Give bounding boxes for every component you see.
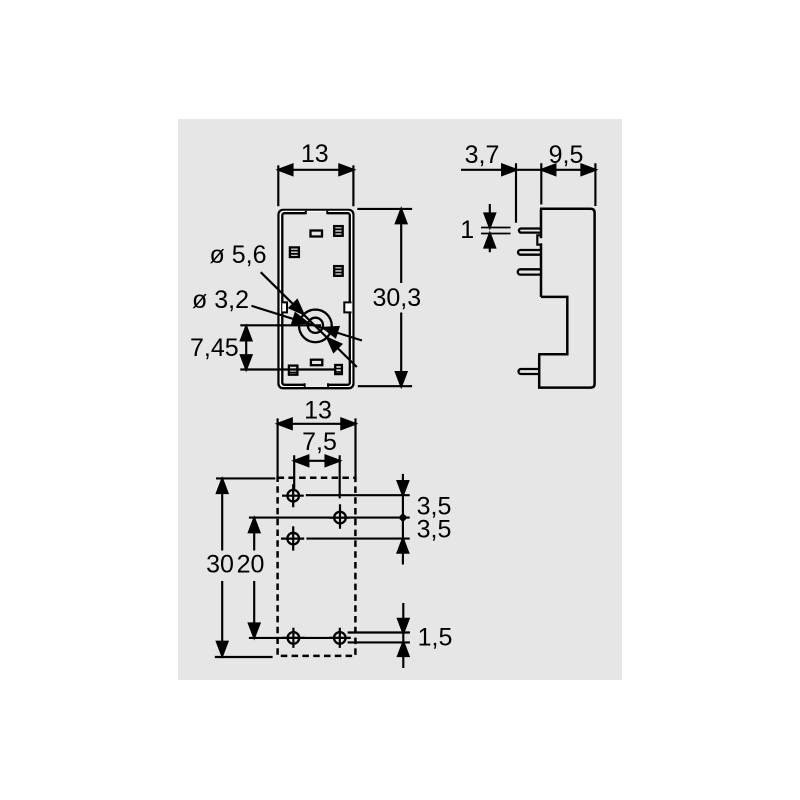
line hole B row	[249, 517, 410, 519]
dimension 30,3: arrows	[396, 209, 406, 223]
dimension 7,5: extension lines	[294, 455, 340, 498]
dimension 30,3: dimension line segments	[400, 209, 402, 386]
side view clip notch	[537, 235, 542, 244]
dimension 13 top: extension lines	[278, 165, 353, 206]
side view pin 2	[518, 250, 541, 255]
dimension 7,45: arrows	[241, 327, 251, 341]
pin slot hatched bottom-left	[289, 366, 298, 375]
line 1,5 upper	[348, 631, 410, 633]
side view body outline	[538, 209, 594, 388]
hole B	[329, 504, 350, 529]
inner line gap top	[306, 212, 328, 215]
dimension 1,5: vertical line	[402, 603, 404, 668]
hole C	[281, 526, 304, 550]
right wall notch	[344, 302, 351, 312]
dimension 1: arrow lines	[489, 204, 491, 252]
side view wall gap at clip	[539, 238, 543, 243]
pin slot hatched top-right	[334, 226, 343, 236]
svg-text:1: 1	[460, 216, 474, 244]
line hole C row	[306, 538, 409, 540]
svg-text:3,5: 3,5	[417, 516, 452, 544]
line 1,5 lower	[348, 641, 410, 643]
center hole outer circle	[299, 310, 332, 343]
svg-text:ø 5,6: ø 5,6	[210, 241, 267, 269]
svg-text:ø 3,2: ø 3,2	[192, 286, 249, 314]
left wall notch	[282, 302, 287, 312]
dimension 7,5: dimension line	[294, 460, 339, 462]
svg-text:7,45: 7,45	[190, 334, 239, 362]
hole E	[329, 628, 351, 648]
hole A	[282, 484, 304, 507]
dimension 30,3: extension lines	[357, 209, 412, 386]
dimension 3,5 shared diamond	[398, 513, 407, 522]
svg-text:20: 20	[237, 550, 265, 578]
dimension 7,45: dimension line	[245, 326, 247, 370]
pin slot open top	[311, 231, 323, 237]
dimension 7,45: extension lines	[240, 325, 334, 369]
side view pin 1	[519, 229, 541, 233]
dimension 3,7 / 9,5: dimension line	[461, 169, 595, 171]
svg-text:3,7: 3,7	[465, 141, 500, 169]
top view inner outline	[282, 213, 350, 385]
dimension 20: dimension line segments	[253, 518, 255, 637]
inner line gap bottom	[304, 383, 328, 386]
svg-text:30: 30	[206, 550, 234, 578]
dimension 30: dimension line segments	[221, 479, 223, 655]
dimension 13 top: dimension line	[278, 169, 353, 171]
bottom recess step ticks	[305, 383, 328, 387]
dimension 13 bottom: dimension line	[278, 423, 356, 425]
side view pin 4	[519, 369, 540, 374]
line holes D/E row	[249, 637, 351, 639]
dimension 30: extension lines	[215, 478, 275, 657]
side view left wall	[540, 209, 543, 297]
svg-text:7,5: 7,5	[302, 428, 337, 456]
leader line dia 3,2 (shallow)	[252, 306, 363, 341]
center hole inner circle	[308, 318, 323, 333]
pin slot hatched bottom-right	[335, 365, 342, 374]
hole D	[282, 628, 305, 648]
dimension 13 top: arrows	[279, 165, 293, 175]
dimension 13 bottom: extension lines	[278, 418, 356, 477]
pin slot open bottom	[311, 360, 322, 366]
leader line dia 5,6 (45 deg)	[261, 272, 357, 367]
pin slot hatched left	[290, 247, 299, 257]
svg-text:13: 13	[304, 397, 332, 425]
pin slot hatched mid-right	[334, 266, 343, 276]
dimension 3,5/3,5: vertical line	[402, 474, 404, 565]
drilling plan dashed outline	[278, 478, 356, 656]
svg-text:13: 13	[301, 140, 329, 168]
svg-text:9,5: 9,5	[549, 141, 584, 169]
side view pin 3	[518, 269, 541, 274]
svg-text:30,3: 30,3	[372, 284, 421, 312]
top recess step ticks	[306, 211, 328, 215]
dimension 3,7 / 9,5: extension lines	[516, 163, 595, 223]
top view outer outline	[279, 210, 354, 388]
svg-text:1,5: 1,5	[418, 624, 453, 652]
top view wall white gap	[280, 212, 351, 387]
dimension 1: extension lines	[481, 228, 511, 234]
line hole A row	[306, 494, 410, 496]
